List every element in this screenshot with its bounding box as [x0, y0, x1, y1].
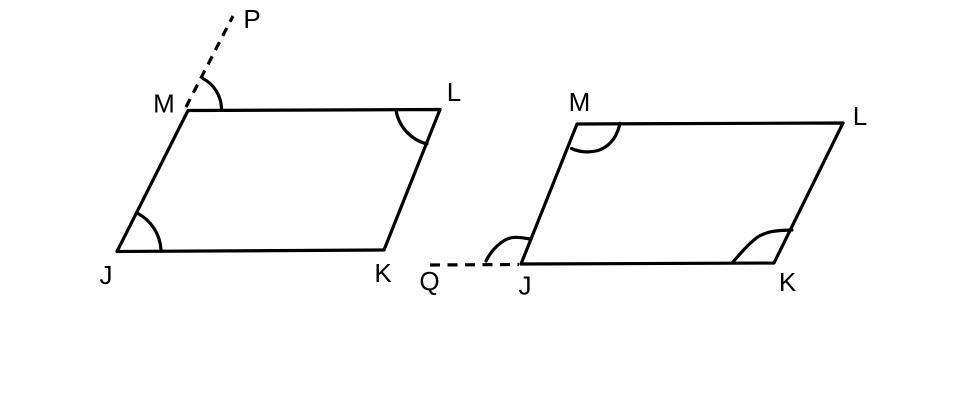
- parallelogram JKLM (right figure): [521, 123, 843, 264]
- parallelogram JKLM (left figure): [117, 110, 440, 252]
- dashed ray J to Q (right figure): [430, 263, 519, 267]
- angle arc at M (exterior angle PML, left figure): [203, 79, 222, 109]
- angle arc at J (interior, left figure): [137, 213, 161, 250]
- svg-text:M: M: [569, 87, 591, 117]
- svg-text:Q: Q: [419, 266, 439, 296]
- dashed ray M to P (left figure): [186, 16, 233, 107]
- angle arc at M (interior, right figure): [572, 123, 621, 152]
- svg-text:K: K: [779, 267, 797, 297]
- svg-text:L: L: [447, 77, 461, 107]
- angle arc at J (exterior angle QJM, right figure): [486, 237, 531, 261]
- angle arc at L (interior, left figure): [396, 110, 427, 144]
- svg-text:K: K: [374, 258, 392, 288]
- svg-text:P: P: [243, 4, 260, 34]
- svg-text:L: L: [853, 101, 867, 131]
- svg-text:J: J: [519, 271, 532, 301]
- svg-text:J: J: [100, 260, 113, 290]
- svg-text:M: M: [153, 89, 175, 119]
- angle arc at K (interior, right figure): [733, 230, 792, 262]
